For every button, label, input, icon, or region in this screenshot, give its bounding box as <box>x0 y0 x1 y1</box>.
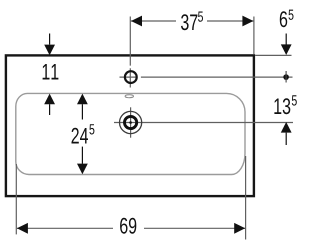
drain outer circle <box>120 111 142 133</box>
dim 13.5: up arrow with stem <box>281 122 292 133</box>
dim 11: down arrow with stem above basin top edge <box>49 34 51 45</box>
dim 24.5: up arrow with stem <box>77 94 88 105</box>
inner bowl rounded outline <box>16 93 245 174</box>
drain center dot <box>129 121 132 124</box>
drain inner circle <box>125 116 137 128</box>
dim 69: left extension line below bowl <box>15 164 17 234</box>
dim 6.5: down arrow with stem <box>285 34 287 46</box>
faucet hole vertical centerline / left extension of 37.5 dim <box>129 17 131 88</box>
dim 37.5: left arrow <box>131 16 142 27</box>
faucet hole horizontal centerline extending right <box>120 76 293 78</box>
dim 69: right extension line below bowl <box>245 156 247 240</box>
dim 69: right arrow <box>234 223 245 234</box>
dim 6.5 / dim 13.5 shared dot marker <box>283 74 289 80</box>
basin outer rectangle <box>6 55 254 196</box>
dim 24.5: down arrow with stem <box>81 147 83 164</box>
drain horizontal centerline extending right <box>114 122 293 124</box>
overflow slot ellipse <box>125 95 133 98</box>
drain vertical centerline <box>130 107 132 137</box>
label 6.5 <box>280 11 287 27</box>
label 37.5 <box>181 14 197 30</box>
label 24.5 <box>72 128 89 144</box>
dim 37.5: right arrow <box>242 16 253 27</box>
dim 37.5: dimension line with text gap <box>131 20 254 22</box>
dim 69: dimension line with text gap <box>17 227 245 229</box>
label 11 <box>43 64 59 80</box>
dim 11: up arrow below bowl top edge <box>44 94 55 105</box>
top edge extension line to right <box>255 54 291 56</box>
label 13.5 <box>274 98 290 114</box>
dim 69: left arrow <box>17 223 28 234</box>
dim 37.5: right extension line (above basin corner) <box>253 17 255 55</box>
faucet hole circle <box>125 71 137 83</box>
dim marker vertical stub through dot <box>285 71 287 83</box>
label 69 <box>120 218 136 234</box>
